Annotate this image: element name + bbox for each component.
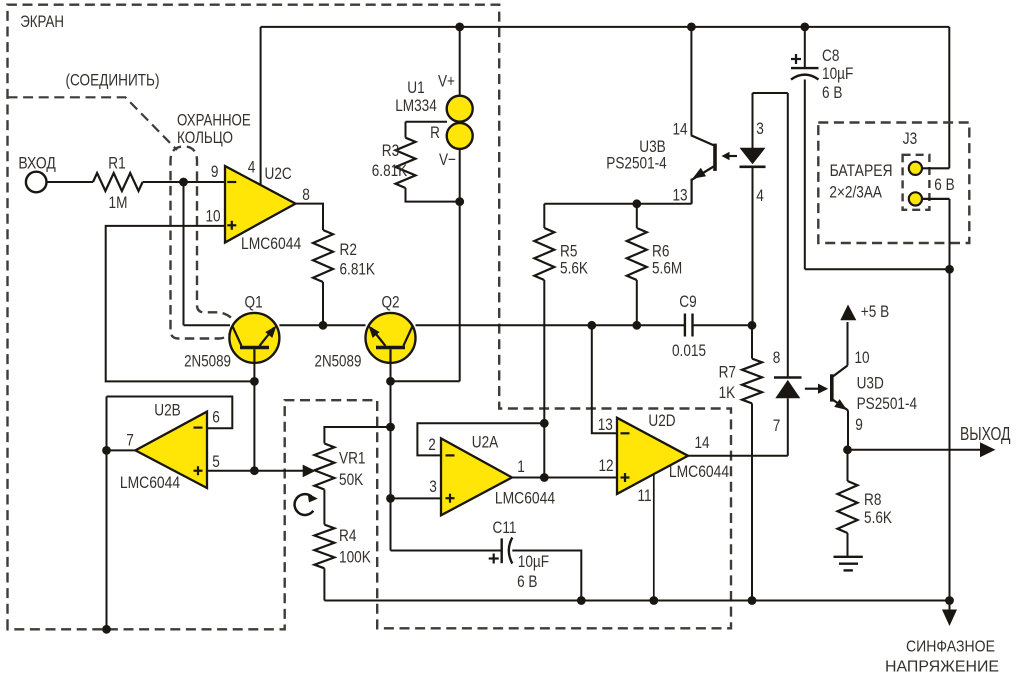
svg-text:U2C: U2C bbox=[265, 164, 292, 183]
svg-text:ЭКРАН: ЭКРАН bbox=[20, 12, 64, 31]
label LMC6044 U2A bbox=[495, 488, 555, 507]
svg-text:1: 1 bbox=[517, 457, 525, 476]
shield-to-guard connect dashed line (СОЕДИНИТЬ) bbox=[8, 97, 178, 150]
svg-text:7: 7 bbox=[126, 430, 134, 449]
svg-text:7: 7 bbox=[773, 416, 781, 435]
label R8 bbox=[864, 490, 881, 509]
wire R8 to ground bbox=[847, 533, 849, 556]
capacitor C8 curved plate bbox=[791, 75, 819, 80]
node shield tie bbox=[102, 625, 111, 634]
svg-text:6 В: 6 В bbox=[822, 83, 842, 102]
label pin 3 bbox=[429, 477, 437, 496]
svg-text:ВХОД: ВХОД bbox=[18, 153, 56, 172]
node U2B out bbox=[102, 446, 111, 455]
label 2N5089 Q2 bbox=[315, 352, 362, 371]
svg-text:Q2: Q2 bbox=[381, 293, 399, 312]
U3B collector diag bbox=[691, 135, 714, 145]
potentiometer VR1 bbox=[314, 444, 334, 490]
svg-text:10µF: 10µF bbox=[822, 64, 853, 83]
node pin3 junction bbox=[386, 494, 395, 503]
guard ring dashed outline (ОХРАННОЕ КОЛЬЦО) bbox=[171, 147, 234, 339]
wire R3 bottom bbox=[406, 188, 460, 202]
U2D plus bbox=[621, 473, 630, 482]
wire R6 top bbox=[636, 204, 638, 228]
U3B LED anode wire bbox=[752, 93, 754, 148]
label pin 3 U3B bbox=[756, 119, 764, 138]
resistor R2 bbox=[313, 230, 333, 282]
svg-text:C11: C11 bbox=[493, 518, 517, 537]
Q2 bar bbox=[376, 346, 405, 350]
Q2 arrow bbox=[368, 326, 379, 338]
node U3B pin14 rail bbox=[687, 23, 696, 32]
node pin11 bottom bbox=[649, 596, 658, 605]
U2B plus bbox=[194, 466, 203, 475]
label pin 7 bbox=[126, 430, 134, 449]
U2B minus bbox=[194, 427, 203, 429]
label LMC6044 U2D bbox=[669, 462, 729, 481]
op-amp U2C bbox=[225, 166, 296, 243]
label ВХОД bbox=[18, 153, 56, 172]
label R4 bbox=[339, 526, 356, 545]
label R pin bbox=[430, 123, 440, 142]
+5V arrowhead bbox=[840, 305, 856, 321]
wire U2A pin2 jog bbox=[417, 423, 544, 455]
label pin 10 U3D bbox=[854, 348, 869, 367]
label НАПРЯЖЕНИЕ bbox=[885, 659, 999, 676]
svg-text:V+: V+ bbox=[438, 72, 455, 91]
label LMC6044 U2B bbox=[120, 473, 180, 492]
label pin 12 bbox=[598, 456, 613, 475]
label C8 bbox=[822, 46, 839, 65]
U2D minus bbox=[621, 432, 630, 434]
wire U2C out bbox=[296, 204, 324, 230]
wire Q2 base down bbox=[390, 363, 392, 381]
svg-text:100K: 100K bbox=[339, 547, 371, 566]
wire Q1 base down bbox=[253, 363, 255, 382]
label pin 6 bbox=[212, 407, 220, 426]
node V+ rail bbox=[455, 23, 464, 32]
resistor R8 bbox=[838, 481, 858, 533]
label ЭКРАН bbox=[20, 12, 64, 31]
ground symbol bbox=[834, 557, 863, 571]
Q2 base lead bbox=[389, 349, 391, 363]
label pin 2 bbox=[428, 435, 436, 454]
label pin 7 U3D bbox=[773, 416, 781, 435]
label V- bbox=[439, 150, 456, 169]
label pin 13 U3B bbox=[672, 185, 687, 204]
svg-text:6.81K: 6.81K bbox=[340, 259, 376, 278]
U3D LED bar bbox=[774, 376, 802, 379]
label pin 8 U3D bbox=[773, 348, 781, 367]
label ВЫХОД bbox=[960, 424, 1011, 444]
U1 LM334 bottom circle bbox=[447, 123, 473, 149]
node R6 bottom bbox=[632, 321, 641, 330]
svg-text:12: 12 bbox=[598, 456, 613, 475]
wire R1 to U2C pin9 bbox=[143, 181, 225, 183]
svg-text:6.81K: 6.81K bbox=[372, 161, 408, 180]
U3B LED triangle bbox=[740, 148, 766, 164]
svg-text:2: 2 bbox=[428, 435, 436, 454]
node C8 rail bbox=[800, 23, 809, 32]
wire input node down bbox=[183, 182, 185, 325]
capacitor C11 curved plate bbox=[509, 538, 513, 564]
wire U2D pin13 drop bbox=[592, 325, 617, 433]
shield boundary (ЭКРАН) with guard dashed border bbox=[8, 5, 732, 630]
svg-text:8: 8 bbox=[773, 348, 781, 367]
label R7 bbox=[719, 363, 736, 382]
U3B emitter diag bbox=[692, 167, 714, 180]
label PS2501-4 U3B bbox=[606, 153, 667, 172]
label 6.81K R3 bbox=[372, 161, 408, 180]
label C9 bbox=[679, 292, 696, 311]
svg-text:6: 6 bbox=[212, 407, 220, 426]
label R3 bbox=[382, 141, 399, 160]
wire input node to Q1 bbox=[184, 324, 231, 326]
label 2N5089 Q1 bbox=[184, 352, 231, 371]
svg-text:0.015: 0.015 bbox=[672, 341, 706, 360]
wire Q2 node down bbox=[390, 381, 392, 550]
label 5.6K R8 bbox=[864, 508, 893, 527]
battery dashed box bbox=[818, 123, 969, 244]
wire U3B pin14 drop bbox=[690, 27, 692, 135]
label U2B bbox=[154, 401, 181, 420]
wire R4 bottom bbox=[323, 568, 325, 600]
label 5.6K R5 bbox=[560, 259, 589, 278]
U2C plus bbox=[227, 221, 236, 230]
battery pin bottom bbox=[909, 192, 922, 205]
output arrowhead bbox=[980, 442, 995, 457]
node pin5 junction bbox=[250, 466, 259, 475]
input terminal ВХОД bbox=[26, 172, 47, 193]
U3B light arrow bbox=[722, 152, 738, 160]
label БАТАРЕЯ bbox=[830, 161, 893, 180]
node fb bbox=[540, 419, 549, 428]
label pin 14 U3B bbox=[672, 120, 687, 139]
resistor R5 bbox=[534, 228, 554, 280]
label C11 bbox=[493, 518, 517, 537]
label PS2501-4 U3D bbox=[857, 394, 918, 413]
svg-text:НАПРЯЖЕНИЕ: НАПРЯЖЕНИЕ bbox=[885, 659, 999, 676]
label VR1 bbox=[339, 449, 366, 468]
U3D emitter arrow bbox=[834, 399, 847, 410]
svg-text:C8: C8 bbox=[822, 46, 839, 65]
svg-text:LMC6044: LMC6044 bbox=[495, 488, 555, 507]
wire U2B out bbox=[107, 449, 136, 451]
wire R7 bottom bbox=[751, 403, 753, 600]
node V- junction bbox=[455, 197, 464, 206]
svg-text:4: 4 bbox=[248, 158, 256, 177]
node U2A out bbox=[540, 473, 549, 482]
label Q1 bbox=[245, 293, 263, 312]
wire output bbox=[848, 449, 989, 451]
svg-text:СИНФАЗНОЕ: СИНФАЗНОЕ bbox=[906, 639, 995, 656]
svg-text:10: 10 bbox=[205, 207, 220, 226]
label +5V bbox=[861, 302, 889, 321]
Q1 base lead bbox=[253, 349, 255, 363]
wire R pin to R3 bbox=[406, 121, 448, 123]
label pin 5 bbox=[212, 452, 220, 471]
Q2 collector diag bbox=[403, 327, 412, 346]
svg-text:(СОЕДИНИТЬ): (СОЕДИНИТЬ) bbox=[66, 71, 160, 90]
resistor R4 bbox=[314, 525, 334, 569]
U2C minus bbox=[227, 181, 236, 183]
node U2D pin13 tap bbox=[587, 321, 596, 330]
svg-text:3: 3 bbox=[429, 477, 437, 496]
wire U2A pin3 bbox=[391, 497, 442, 499]
transistor Q1 body bbox=[229, 313, 279, 363]
wire jog down to U3D bbox=[787, 93, 789, 378]
svg-text:R2: R2 bbox=[340, 240, 357, 259]
label 6V C8 bbox=[822, 83, 842, 102]
wire U3B jog top bbox=[753, 92, 788, 94]
wire C8 down bbox=[804, 80, 806, 270]
wire VR1 to R4 bbox=[323, 490, 325, 525]
wire U2C pin4 up bbox=[260, 27, 262, 186]
node R2 base wire bbox=[319, 321, 328, 330]
U3D bar bbox=[830, 374, 834, 401]
wire Q1-Q2 bbox=[279, 324, 365, 326]
label LMC6044 U2C bbox=[241, 234, 301, 253]
svg-text:LMC6044: LMC6044 bbox=[241, 234, 301, 253]
label U3B bbox=[639, 137, 666, 156]
wire U3B LED down bbox=[752, 167, 754, 325]
battery pin bottom wire bbox=[915, 198, 949, 200]
U3D emitter diag bbox=[832, 399, 848, 410]
svg-text:2×2/3AA: 2×2/3AA bbox=[829, 183, 882, 202]
U1 LM334 top circle bbox=[447, 96, 473, 122]
label 1M bbox=[109, 193, 128, 212]
Q2 emitter diag bbox=[371, 328, 386, 346]
label (СОЕДИНИТЬ) bbox=[66, 71, 160, 90]
wire C8 top bbox=[804, 27, 806, 68]
label pin 8 bbox=[302, 185, 310, 204]
label pin 11 bbox=[637, 486, 651, 505]
svg-text:1K: 1K bbox=[719, 383, 736, 402]
wire R3 top bbox=[405, 122, 407, 138]
wire U3D collector up bbox=[847, 322, 849, 366]
wire V- to Q2 base node bbox=[391, 380, 460, 382]
svg-text:1M: 1M bbox=[109, 193, 128, 212]
wire U2A out bbox=[512, 477, 617, 479]
svg-text:2N5089: 2N5089 bbox=[315, 352, 362, 371]
U3B bar bbox=[713, 144, 717, 171]
label pin 10 bbox=[205, 207, 220, 226]
svg-text:R1: R1 bbox=[108, 153, 125, 172]
label pin 1 bbox=[517, 457, 525, 476]
wire VR1 top bbox=[324, 427, 390, 444]
wire battery minus down bbox=[949, 199, 951, 601]
battery pin top bbox=[909, 162, 922, 175]
wire U3D LED down bbox=[787, 398, 789, 456]
wire C11 left bbox=[391, 550, 502, 552]
U3D light arrow bbox=[805, 384, 828, 394]
wire U2B pin5 bbox=[207, 470, 254, 472]
label R6 bbox=[652, 242, 669, 261]
wire Q2 right bbox=[416, 324, 685, 326]
node R7 bottom bbox=[748, 596, 757, 605]
Q1 collector diag bbox=[233, 327, 242, 346]
svg-text:БАТАРЕЯ: БАТАРЕЯ bbox=[830, 161, 893, 180]
label 50K bbox=[339, 470, 364, 489]
wire U2C pin10 path bbox=[106, 226, 255, 382]
svg-text:R: R bbox=[430, 123, 440, 142]
capacitor C8 top plate bbox=[791, 67, 819, 69]
label R1 bbox=[108, 153, 125, 172]
label U1 bbox=[407, 78, 424, 97]
wire C9 right bbox=[693, 324, 753, 326]
label pin 14 bbox=[694, 433, 709, 452]
U3B emitter tail bbox=[690, 179, 692, 204]
label 10uF C8 bbox=[822, 64, 853, 83]
label pin 13 bbox=[598, 415, 613, 434]
svg-text:J3: J3 bbox=[903, 129, 917, 148]
resistor R3 bbox=[396, 138, 416, 188]
resistor R6 bbox=[627, 228, 647, 280]
node right bottom bbox=[945, 596, 954, 605]
svg-text:U2B: U2B bbox=[154, 401, 181, 420]
svg-text:13: 13 bbox=[598, 415, 613, 434]
wire R2 bottom bbox=[322, 282, 324, 325]
svg-text:4: 4 bbox=[756, 186, 764, 205]
U2A minus bbox=[446, 454, 455, 456]
label V+ bbox=[438, 72, 455, 91]
node C11 bottom bbox=[577, 596, 586, 605]
svg-text:R7: R7 bbox=[719, 363, 736, 382]
J3 connector dashed box bbox=[903, 155, 930, 210]
label LM334 bbox=[395, 96, 437, 115]
node input junction bbox=[179, 178, 188, 187]
U2A plus bbox=[446, 494, 455, 503]
node VR1 top junction bbox=[386, 423, 395, 432]
Q1 emitter diag bbox=[260, 328, 275, 346]
label 0.015 bbox=[672, 341, 706, 360]
wire U2B out down to shield bbox=[106, 397, 108, 630]
wiper arrowhead bbox=[303, 465, 316, 478]
label 100K bbox=[339, 547, 371, 566]
svg-text:6 В: 6 В bbox=[517, 572, 537, 591]
svg-text:VR1: VR1 bbox=[339, 449, 366, 468]
wire R8 top bbox=[847, 450, 849, 481]
label pin 9 bbox=[211, 162, 219, 181]
svg-text:14: 14 bbox=[672, 120, 687, 139]
label pin 9 U3D bbox=[855, 415, 863, 434]
svg-text:2N5089: 2N5089 bbox=[184, 352, 231, 371]
label Q2 bbox=[381, 293, 399, 312]
wire U2D out bbox=[688, 455, 788, 457]
wire V+ drop bbox=[459, 27, 461, 96]
svg-text:R4: R4 bbox=[339, 526, 356, 545]
wire R7 top bbox=[751, 325, 753, 358]
svg-text:5.6K: 5.6K bbox=[560, 259, 589, 278]
label 6V battery bbox=[934, 175, 954, 194]
svg-text:V−: V− bbox=[439, 150, 456, 169]
svg-text:ОХРАННОЕ: ОХРАННОЕ bbox=[177, 110, 251, 129]
wire pin13 rail bbox=[544, 203, 691, 205]
wire R6 bottom bbox=[636, 280, 638, 325]
svg-text:U3D: U3D bbox=[857, 374, 884, 393]
wiper arrow wire bbox=[254, 470, 304, 472]
wire right rail down to battery bbox=[948, 27, 950, 168]
label 6.81K R2 bbox=[340, 259, 376, 278]
label U2C bbox=[265, 164, 292, 183]
svg-text:5.6M: 5.6M bbox=[652, 259, 682, 278]
svg-text:+5 В: +5 В bbox=[861, 302, 889, 321]
capacitor C9 plates bbox=[685, 314, 693, 337]
node R7 top bbox=[748, 321, 757, 330]
label pin 4 U3B bbox=[756, 186, 764, 205]
svg-text:LMC6044: LMC6044 bbox=[120, 473, 180, 492]
battery pin top wire bbox=[915, 167, 949, 169]
transistor Q2 body bbox=[366, 313, 416, 363]
label J3 bbox=[903, 129, 917, 148]
C11 plus bbox=[489, 554, 499, 564]
node Q2 base bbox=[386, 377, 395, 386]
node R6 top bbox=[632, 199, 641, 208]
svg-text:6 В: 6 В bbox=[934, 175, 954, 194]
svg-text:U2A: U2A bbox=[472, 433, 499, 452]
svg-text:PS2501-4: PS2501-4 bbox=[857, 394, 918, 413]
op-amp U2B bbox=[135, 412, 207, 488]
svg-text:9: 9 bbox=[211, 162, 219, 181]
op-amp U2A bbox=[441, 438, 512, 515]
C8 plus bbox=[791, 54, 801, 64]
label 1K bbox=[719, 383, 736, 402]
wire Q1 node down bbox=[253, 381, 255, 470]
resistor R7 bbox=[742, 359, 762, 404]
label 10uF C11 bbox=[518, 552, 549, 571]
svg-text:10: 10 bbox=[854, 348, 869, 367]
wire R5 bottom bbox=[543, 280, 545, 423]
svg-text:КОЛЬЦО: КОЛЬЦО bbox=[177, 128, 233, 147]
label 2x2/3AA bbox=[829, 183, 882, 202]
svg-text:5: 5 bbox=[212, 452, 220, 471]
wire bottom rail bbox=[324, 600, 949, 602]
wire fb node vertical bbox=[543, 423, 545, 477]
svg-text:13: 13 bbox=[672, 185, 687, 204]
svg-text:ВЫХОД: ВЫХОД bbox=[960, 424, 1011, 444]
svg-text:PS2501-4: PS2501-4 bbox=[606, 153, 667, 172]
svg-text:14: 14 bbox=[694, 433, 709, 452]
svg-text:C9: C9 bbox=[679, 292, 696, 311]
node Q1 base bbox=[250, 377, 259, 386]
svg-text:5.6K: 5.6K bbox=[864, 508, 893, 527]
svg-text:R3: R3 bbox=[382, 141, 399, 160]
wire common-mode stub bbox=[949, 601, 951, 613]
label СИНФАЗНОЕ bbox=[906, 639, 995, 656]
wire C11 right bbox=[512, 551, 581, 601]
label U3D bbox=[857, 374, 884, 393]
rotation arrow bbox=[295, 493, 318, 515]
label U2D bbox=[648, 411, 675, 430]
node output bbox=[843, 445, 852, 454]
op-amp U2D bbox=[617, 418, 688, 494]
label U2A bbox=[472, 433, 499, 452]
svg-text:8: 8 bbox=[302, 185, 310, 204]
node battery minus bbox=[945, 265, 954, 274]
resistor R1 bbox=[93, 173, 143, 191]
svg-text:3: 3 bbox=[756, 119, 764, 138]
label R2 bbox=[340, 240, 357, 259]
common-mode arrowhead bbox=[942, 610, 957, 627]
U3B LED cathode bar bbox=[740, 166, 766, 169]
svg-text:10µF: 10µF bbox=[518, 552, 549, 571]
svg-text:Q1: Q1 bbox=[245, 293, 263, 312]
wire V- down bbox=[459, 149, 461, 381]
wire input to R1 bbox=[47, 181, 94, 183]
svg-text:U2D: U2D bbox=[648, 411, 675, 430]
U3D LED triangle bbox=[775, 380, 800, 398]
wire C8 to right rail bbox=[805, 268, 950, 270]
